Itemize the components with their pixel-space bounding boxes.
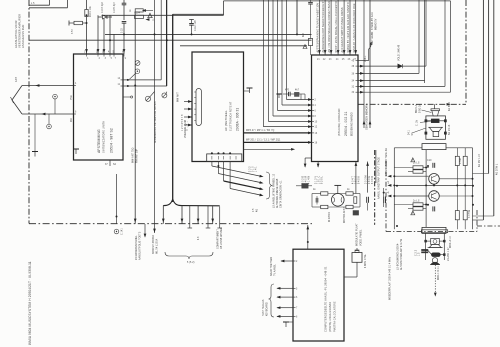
arrow: control top pin 5 (343, 50, 346, 54)
svg-text:L.R.V. GRAMO TAPE 4Ω: L.R.V. GRAMO TAPE 4Ω (385, 148, 388, 176)
svg-text:29504 - 987 S2: 29504 - 987 S2 (110, 128, 114, 153)
warning triangle safety mark (148, 13, 153, 18)
svg-text:0.22: 0.22 (122, 27, 124, 33)
svg-text:CB 2/USB WISSEL: CB 2/USB WISSEL (221, 227, 223, 249)
wire: C401 leads (296, 185, 302, 187)
svg-text:ANSCHLUSS FUR: ANSCHLUSS FUR (21, 25, 25, 48)
arrow: AF pcb pins (188, 100, 192, 103)
svg-text:DISPLAY / UREN KLOK OROLOGIO O: DISPLAY / UREN KLOK OROLOGIO ORE (353, 3, 356, 52)
inductor L1: crossover coil (431, 119, 439, 123)
svg-text:VOED. PANEL: VOED. PANEL (360, 229, 363, 246)
node A: circled test point a (53, 94, 58, 99)
junction: misc dots (86, 14, 88, 16)
svg-text:3.57: 3.57 (72, 28, 74, 34)
frame: enclosure dash-dot right riser (476, 210, 478, 232)
svg-text:75Ω: 75Ω (71, 95, 73, 100)
svg-text:1.5: 1.5 (418, 252, 420, 256)
svg-text:0.5: 0.5 (253, 208, 255, 212)
arrow: pin y=92.2 (360, 91, 364, 94)
capacitor C210 (289, 92, 291, 97)
wire: ctrl bottom left corner drop (305, 157, 311, 159)
resistor R535 (455, 156, 459, 165)
arrow: x=135.2 end (134, 219, 137, 223)
svg-text:1 2 3 4 5 6 7 8: 1 2 3 4 5 6 7 8 (182, 114, 184, 131)
wire: top bus y=0.9 to right loop (224, 0, 451, 2)
junction: dot on y=86 (127, 85, 129, 87)
warning triangle at R301 (303, 45, 307, 49)
arrow: exit left lower (387, 195, 391, 198)
wire: control top pin 2 (324, 0, 326, 55)
transistor Q1: upper output (429, 174, 440, 185)
arrow: fan drop 6 (211, 219, 214, 223)
crystal X100 body (74, 21, 83, 24)
pin ticks: control left edge (312, 100, 315, 143)
connector J5: top center box (422, 144, 446, 150)
connector J6: bottom center box (422, 227, 446, 233)
diode D102 (103, 15, 108, 19)
node M: slashed marker on branch (145, 96, 150, 101)
label: memory top labels (371, 12, 378, 45)
wire: thin vertical x=154.5 full drop (154, 0, 156, 233)
wire: R140 link (142, 9, 144, 11)
arrow: fan out 4 (259, 194, 264, 198)
wire: long vertical x=135.2 (134, 12, 136, 224)
label: fan source note (250, 166, 258, 172)
arrow: memory arrow 1 (363, 120, 366, 124)
capacitor C105 (122, 22, 127, 24)
bus: MP line 1 (244, 132, 311, 134)
svg-text:24.1: 24.1 (409, 129, 411, 135)
speaker LS1: tweeter horn (431, 109, 440, 116)
svg-text:AFSTEMMING: AFSTEMMING (97, 129, 101, 153)
arrow: control top pin 6 (349, 50, 352, 54)
junction: coil lead blobs (425, 120, 427, 122)
wire: fan drop 2 (181, 206, 183, 224)
arrow: drop x=367.6 (366, 162, 369, 166)
capacitor C103 top (122, 3, 127, 5)
wire: tweeter feed stub (434, 104, 436, 109)
svg-text:AANSLUITING VOOR: AANSLUITING VOOR (14, 20, 18, 48)
wire: R101 bottom lead (86, 17, 88, 55)
svg-text:ZENDERZOEKLOOP SEARCH RICERCA: ZENDERZOEKLOOP SEARCH RICERCA ST (322, 0, 325, 53)
svg-text:WM/A 9604 MUSICSYSTEM H 2950: WM/A 9604 MUSICSYSTEM H 29504/21T · III-… (28, 261, 32, 345)
wire: fan drop 1 (162, 206, 164, 224)
wire: heavy vertical x=166.5 (166, 0, 168, 86)
wire: loop up x=419 (418, 0, 420, 73)
wire: q2 left feed (394, 195, 428, 197)
arrow: antenna lower into tuner (41, 113, 45, 116)
wire: C301 stem (310, 0, 312, 2)
driver LS6: small driver (432, 258, 437, 263)
inductor L2: lower coil (432, 253, 441, 256)
wire: memory wire 1 (363, 0, 365, 128)
svg-text:4Ω RV 1.97: 4Ω RV 1.97 (479, 153, 481, 167)
wire: C103 stem (123, 0, 125, 3)
arrow: B4 left pin 1 (280, 260, 284, 263)
wire: drop from top at x=67.5 (67, 0, 69, 8)
svg-text:STAND BY / NETZ EIN AUS ACC SP: STAND BY / NETZ EIN AUS ACC SPENTO (347, 2, 350, 52)
wire: ctrl right pin y=86.4 (358, 85, 445, 87)
svg-text:MIDI-170.11: MIDI-170.11 (438, 266, 440, 280)
wire: long leader to box (412, 128, 426, 133)
wire: riser x=161.2 (160, 0, 162, 80)
pin ticks: tuner top edge (87, 54, 125, 57)
wire: fan drop 5 (207, 206, 209, 228)
resistor R546 (463, 211, 467, 220)
svg-text:C 141: C 141 (122, 228, 124, 235)
wire: B4 left pin 4 (277, 307, 293, 309)
warning triangle upper (411, 158, 415, 162)
ground: B4 ground (283, 322, 289, 327)
svg-text:1 8 1 C: 1 8 1 C (319, 176, 321, 184)
svg-text:0.5W: 0.5W (460, 157, 462, 164)
wire: link to test point b (48, 114, 50, 124)
arrow: x=154.5 end (153, 229, 156, 233)
pin: ctrl bottom wire x=355.9 (355, 162, 357, 194)
arrow: bus arrows into control board (308, 125, 312, 128)
module A4: computer board 29504-048 (293, 249, 344, 341)
svg-text:2 1 2 V: 2 1 2 V (316, 176, 318, 184)
junction: J3 pin dots (211, 152, 213, 154)
wire: R301 to board (310, 46, 312, 56)
svg-text:C112 1n5: C112 1n5 (195, 20, 197, 31)
wire: C412 drop (367, 203, 369, 211)
svg-text:C10: C10 (427, 160, 432, 162)
svg-text:MEMO 5V: MEMO 5V (375, 18, 377, 30)
resistor R410 (321, 192, 328, 195)
wire: C112 stem (191, 20, 193, 24)
label: fan dest note (273, 173, 283, 208)
wire: ctrl bottom right corner drop (367, 162, 369, 193)
wire: bus turn 2 (269, 121, 312, 123)
wire: B4 left pin 5 (277, 315, 293, 317)
svg-text:0 1 0: 0 1 0 (253, 166, 255, 172)
svg-text:4k7: 4k7 (295, 90, 300, 92)
wire: cluster links (283, 93, 289, 95)
ground: cluster ground (276, 94, 281, 98)
antenna: dipole symbol (11, 86, 23, 115)
module A1: AFSTEMMING tuner board 29504-987 (74, 54, 124, 160)
svg-text:R101 10k: R101 10k (90, 5, 92, 17)
svg-text:LS AANSLUITING PANEEL 13: LS AANSLUITING PANEEL 13 (273, 173, 276, 208)
wire: memory wire 2 (369, 0, 371, 128)
svg-text:MP3.47 / MP 4.1 / BF 7Q: MP3.47 / MP 4.1 / BF 7Q (246, 130, 274, 132)
arrow: pin 2 (97, 49, 100, 53)
arrow: below-border arrow x=145 (144, 234, 147, 238)
junction: lower speaker blobs (425, 240, 427, 242)
svg-text:0 4 0 R: 0 4 0 R (306, 176, 308, 184)
svg-text:24 GROEPEN PANEL: 24 GROEPEN PANEL (135, 235, 138, 260)
svg-text:TAST TECLAS: TAST TECLAS (262, 299, 265, 316)
svg-text:4Ω BOX: 4Ω BOX (449, 101, 451, 111)
tick: fan drop 5 end (206, 227, 211, 229)
junction: C112 top tick (189, 19, 194, 21)
label: bottom pin text columns (303, 176, 375, 185)
junction: dot on x=116.5 (116, 216, 118, 218)
wire: drop x=110 from bus (109, 15, 111, 54)
wire: ctrl right pin y=66.1 with diode (358, 65, 398, 67)
svg-text:ALTAVOZ PARLANTE 4.7W: ALTAVOZ PARLANTE 4.7W (400, 238, 403, 270)
resistor R101 (85, 10, 88, 17)
junction: woofer lead blobs (425, 132, 427, 134)
wire: fan out 3 thick (224, 181, 262, 189)
wire: q right links (439, 178, 472, 180)
wire: drop x=104 to tuner (103, 19, 105, 54)
wire: bus turn 5 (282, 104, 312, 106)
resistor R411 (321, 205, 328, 208)
arrow: fan out 2 (259, 181, 264, 184)
wire: drop x=297 from top (296, 0, 298, 34)
svg-text:4Ω 20W L: 4Ω 20W L (497, 163, 499, 175)
svg-text:BR2 LS: BR2 LS (416, 104, 418, 113)
arrow: stub x=355.9 (355, 162, 358, 166)
speaker box: lower cabinet top bar (421, 230, 447, 233)
wire: center column (425, 150, 427, 228)
arrow: drop x=305.1 (304, 164, 307, 168)
svg-text:ANT: ANT (15, 76, 18, 82)
warning triangle lower (411, 211, 415, 215)
wire: 493.8 turn (473, 215, 494, 217)
wire: loop up x=450.5 (450, 1, 452, 92)
wire: C105 lead down (123, 23, 125, 54)
svg-text:VOL+: VOL+ (365, 55, 367, 62)
resistor R140 on x=135.2 top (135, 9, 143, 12)
svg-text:AFSTEMSPANNING TUNING V-ABST 3: AFSTEMSPANNING TUNING V-ABST 30V (317, 3, 320, 53)
frame: inner dash-dot vertical (374, 150, 376, 224)
wire: crystal to node (69, 22, 74, 24)
wire: loop up x=445 (444, 0, 446, 86)
svg-text:AFREGELING ZIE SERVICE NOTES: AFREGELING ZIE SERVICE NOTES (154, 101, 157, 143)
wire: far right vertical 1 (482, 0, 484, 220)
wire: loop x=424.6 upper (424, 0, 426, 81)
wire: diode feed (98, 16, 103, 18)
arrow: left arrow marker b (145, 18, 149, 21)
arrow: control top pin 2 (324, 50, 327, 54)
wire: bus vertical 3 (272, 0, 274, 116)
speaker box: lower cabinet sides (425, 233, 427, 260)
svg-text:ELETTRONICA RETE AT: ELETTRONICA RETE AT (230, 101, 233, 131)
junction: bus node x=297 (296, 33, 298, 35)
arrow: control top pin 3 (330, 50, 333, 54)
svg-text:C. 2k: C. 2k (417, 119, 419, 126)
speaker LS5: squawker (428, 238, 443, 247)
arrow: curved flag at x=368.7 (369, 43, 371, 49)
pin: AF pcb left stubs (184, 101, 192, 103)
svg-text:M 29504: M 29504 (329, 212, 331, 222)
arrow: pin y=86.4 (360, 85, 364, 88)
label: fan labels below border (122, 227, 224, 260)
arrow: B4 left pin 5 (276, 315, 280, 318)
capacitor C410 (316, 198, 318, 203)
wire: R545 feeds (456, 185, 458, 210)
wire: bus vertical 2 (268, 0, 270, 122)
svg-text:MOTOR AFST: MOTOR AFST (343, 206, 346, 223)
label: connector pin ticks (194, 92, 196, 121)
arrow: control top pin 1 (318, 50, 321, 54)
pin ticks: computer left edge (293, 261, 298, 318)
frame: right dash-dot stub (477, 225, 500, 227)
svg-text:NAAR TOETSEN: NAAR TOETSEN (270, 257, 273, 276)
label: tuner board title (97, 121, 114, 153)
wire: C414 stem (383, 188, 385, 197)
wire: B4 left pin 2 (277, 287, 293, 289)
amp net: outer right rail (472, 148, 474, 229)
svg-text:L 5: L 5 (31, 3, 35, 5)
wire: diagonal branch to M (150, 92, 155, 97)
svg-text:2 0 2 B: 2 0 2 B (303, 176, 305, 184)
svg-text:8Ω 24.16: 8Ω 24.16 (449, 124, 451, 135)
arrow: MP line 1 arrow (308, 132, 312, 135)
frame: enclosure dash-dot left (385, 161, 387, 232)
amp net: outer left rail (393, 148, 395, 229)
wire: lower rc links (394, 204, 413, 206)
wire: fan drop 4 (197, 206, 199, 224)
arrow: pin y=73.4 (360, 72, 364, 75)
svg-text:8 2 8 L: 8 2 8 L (322, 176, 324, 184)
wire: diagonal branch to N (165, 92, 168, 94)
svg-text:4Ω: 4Ω (257, 209, 259, 212)
label: upper rc values (413, 160, 432, 203)
wire: cluster drop (304, 94, 306, 100)
svg-text:AFC AAN/UIT SWITCH INSER DISIN: AFC AAN/UIT SWITCH INSER DISINS (341, 7, 344, 52)
wire: bus y=45.8 (180, 45, 307, 47)
svg-text:STOP / MUTE NIVEAU LIVELLO ARR: STOP / MUTE NIVEAU LIVELLO ARRESTO (335, 1, 338, 52)
pin ticks: control right edge (356, 61, 359, 93)
svg-text:AANSLUITFOLIE TOETS: AANSLUITFOLIE TOETS (139, 231, 142, 260)
wire: bus turn 6 (287, 99, 312, 101)
wire: fan split bar (163, 199, 219, 206)
svg-text:FM: FM (71, 118, 73, 122)
pin ticks: tuner right edge (118, 78, 124, 86)
wire: drop from top at x=49.5 (49, 0, 51, 5)
wire: control top pin 3 (330, 0, 332, 55)
wire: supply line to border upper (29, 4, 50, 6)
wire: mid rail (394, 184, 472, 186)
arrow: lower link arrow (291, 148, 295, 151)
frame: left dash-dot chassis border (28, 0, 30, 224)
wire: ctrl right pin y=60.5 (358, 60, 369, 62)
wire: supply line to border lower (29, 7, 68, 9)
wire: antenna ground stub (34, 114, 36, 152)
frame: right dash-dot border vertical (465, 0, 467, 104)
resistor R545 (455, 211, 459, 220)
svg-text:4 1 4 N: 4 1 4 N (309, 176, 311, 184)
wire: motor mesh (312, 193, 321, 195)
svg-text:(STURING) COMANDO: (STURING) COMANDO (338, 108, 341, 136)
polar cap C413 (353, 211, 358, 215)
resistor R531 (413, 166, 423, 169)
wire: B4 to crystal (344, 276, 357, 278)
resistor R532 (413, 170, 423, 173)
wire: control top pin 4 (337, 0, 339, 55)
svg-text:5/8Ω 2x: 5/8Ω 2x (420, 103, 422, 113)
wire: lower link line (244, 148, 292, 150)
arrow: B4 left pin 3 (276, 296, 280, 299)
junction: node above C414 (383, 192, 385, 194)
wire: bus turn 4 (278, 110, 312, 112)
resistor R210 block (295, 92, 300, 96)
svg-text:4 MHz XTAL: 4 MHz XTAL (364, 253, 367, 268)
wire: control top pin 5 (343, 0, 345, 55)
capacitor C412 (367, 197, 369, 203)
wire: riser x=166.9 (166, 0, 168, 86)
arrow: fan drop 2 (181, 219, 184, 223)
label: tweeter annotation (416, 103, 422, 113)
transistor Q2: lower output (429, 191, 440, 202)
svg-text:MW-ANT 75Ω: MW-ANT 75Ω (132, 147, 135, 163)
ground: AF board right ground (247, 88, 253, 93)
capacitor C541 (433, 206, 435, 211)
svg-text:5 (5.2): 5 (5.2) (187, 262, 195, 264)
wire: bus y=40.2 long (29, 39, 312, 41)
wire: C410 riser (316, 196, 318, 198)
crystal X401 (352, 253, 362, 263)
arrow: stub x=318.1 (317, 164, 320, 168)
wire: q1 left feed (394, 175, 428, 177)
pin: tuner bottom stub (109, 160, 111, 166)
wire: top bus corner up x=223.5 (223, 1, 225, 15)
svg-text:0 6 0 E: 0 6 0 E (369, 176, 371, 184)
speaker box: upper cabinet (426, 116, 446, 139)
capacitor C531 (433, 163, 435, 168)
bracket: fan group brace right (266, 172, 273, 199)
wire: lower speaker tail dashed (434, 265, 436, 296)
arrow: B4 left pin 2 (276, 287, 280, 290)
label: control board title (338, 108, 354, 136)
arrow: tail arrow (434, 293, 437, 297)
capacitor C520 electrolytic plates (422, 249, 429, 250)
arrow: fan drop 4 (197, 219, 200, 223)
svg-text:2x LS: 2x LS (413, 163, 420, 165)
arrow: B4 left pin 4 (276, 306, 280, 309)
svg-text:COMPUTERGEDEELTE AANSL.-PL 29: COMPUTERGEDEELTE AANSL.-PL 29504 - 048 S… (324, 266, 328, 332)
arrow: antenna upper into tuner (35, 84, 39, 87)
pin: tuner right wire y=79.9 (123, 79, 161, 81)
resistor R104 (135, 15, 144, 18)
svg-text:VERSTERKER AMPLIFIER: VERSTERKER AMPLIFIER (18, 14, 22, 48)
node 11: circled test point (135, 69, 140, 74)
wire: bus vertical 6 (286, 0, 288, 100)
wire: antenna feed lower (22, 113, 74, 115)
node 14: circled test point (135, 61, 140, 66)
arrow: fan out 1 (259, 175, 263, 178)
svg-text:0 8 0 S: 0 8 0 S (356, 176, 358, 184)
wire: fan out 4 (230, 189, 262, 196)
wire: B4 top riser to border (307, 225, 309, 249)
capacitor C401 electrolytic (302, 184, 308, 189)
ground: chassis tick at tuner input (73, 149, 79, 154)
wire: drop x=98 to tuner (97, 15, 99, 54)
junction: R101/crystal node (86, 22, 88, 24)
wire: bus vertical 1 (262, 0, 264, 127)
crystal X100 end bar (68, 21, 70, 26)
node B: circled test point b (47, 124, 52, 129)
label: AF board title (224, 101, 240, 131)
antenna tip above motor (337, 185, 339, 193)
bracket: B4 pin group (269, 284, 275, 317)
wire: link to test point a (54, 99, 56, 114)
wire: bus turn 3 (273, 115, 312, 117)
svg-text:VOLD 1N4148: VOLD 1N4148 (399, 44, 401, 61)
capacitor C112 (189, 24, 194, 26)
pin numbers: tuner top (87, 58, 127, 60)
bracket: fan group brace (165, 252, 213, 259)
wire: far right vertical 3 (493, 0, 495, 216)
arrow: dash-dot arrow into top (447, 103, 451, 106)
svg-text:TV AANSL: TV AANSL (274, 263, 277, 276)
wire: ctrl right pin y=73.4 (358, 72, 419, 74)
pin ticks: tuner left edge (74, 83, 78, 114)
